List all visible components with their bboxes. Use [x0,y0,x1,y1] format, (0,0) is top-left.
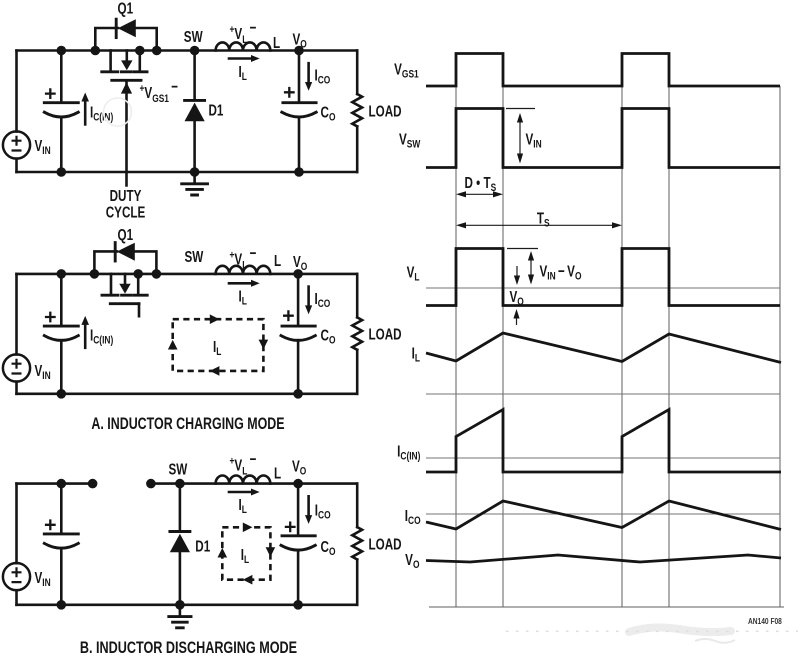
svg-text:AN140 F08: AN140 F08 [748,616,782,626]
current arrow ICO circuit1 [305,63,312,91]
dimension arrow VIN-VO [528,251,534,285]
body diode of Q1 circuitA [115,243,135,261]
marker VL top level [507,248,538,250]
node VO dot circuitA [293,269,303,279]
svg-text:B. INDUCTOR DISCHARGING MODE: B. INDUCTOR DISCHARGING MODE [80,639,297,657]
plus sign CIN circuitB [45,519,56,530]
small arrow down to VL zero [514,266,520,285]
zero line ICO [426,513,780,515]
resistor LOAD circuitB [352,484,362,605]
plus sign CO circuit1 [284,87,295,98]
node dot Q1 left circuit1 [91,46,101,56]
node VO dot circuit1 [294,46,304,56]
watermark ghost circle circuit1 [104,98,132,126]
node SW dot circuitB [175,479,185,489]
loop arrow left circuitA [168,340,178,350]
diode D1 circuit1 [185,51,205,173]
wire top rail circuitA [17,273,358,276]
watermark dotted line [506,630,798,632]
transistor Q1 MOSFET body arrow circuit1 [121,51,132,71]
wire VIN top lead circuit1 [15,51,18,132]
node dot CIN bottom circuit1 [57,167,67,177]
wire VIN top lead circuitB [15,484,18,564]
svg-text:CYCLE: CYCLE [106,202,146,220]
inductor L circuitA [216,266,271,274]
current arrow IL circuit1 [229,55,260,62]
transistor Q1 MOSFET source lead circuit1 [139,51,142,71]
dimension arrow TS [456,222,622,228]
node dot Q1 right circuitA [152,269,162,279]
inductor L circuitB [216,476,271,484]
loop arrow top circuitB [243,523,253,533]
svg-text:Q1: Q1 [118,0,134,17]
plus sign CO circuitA [283,310,294,321]
transistor Q1 MOSFET gate plate circuit1 [112,79,141,82]
capacitor CO circuit1 [282,51,316,173]
wire VIN bottom lead circuitA [15,382,18,394]
transistor Q1 MOSFET body arrow circuitA [119,274,130,294]
transistor Q1 MOSFET channel dashes circuit1 [102,70,147,73]
resistor LOAD circuitA [352,274,362,394]
ground symbol circuitB [169,605,191,628]
gridline vertical t4 [668,54,670,608]
svg-text:Q1: Q1 [118,225,134,243]
node dot CIN top circuit1 [57,46,67,56]
capacitor CO circuitB [281,484,315,605]
ground symbol circuit1 [182,172,208,195]
wire VIN top lead circuitA [15,274,18,355]
node dot CO bottom circuitA [293,389,303,399]
zero line VL [426,287,780,289]
node dot Q1 left circuitA [90,269,100,279]
diode D1 circuitB [170,484,190,605]
node dot CIN bottom circuitB [57,600,67,610]
wire VIN bottom lead circuitB [15,590,18,605]
svg-text:D1: D1 [195,537,210,555]
dimension arrow VIN (VSW amplitude) [517,113,523,164]
voltage source VIN circuit1 [3,131,30,158]
svg-text:SW: SW [184,27,203,45]
dashed current loop circuitB [222,527,270,579]
node dot D1 bottom circuitB [175,600,185,610]
current arrow IC(IN) circuitA [81,316,89,348]
waveform ICO [426,501,781,530]
loop arrow right circuitA [259,340,269,350]
capacitor CIN circuitA [44,274,78,394]
node dot CO bottom circuit1 [294,167,304,177]
transistor Q1 body-diode loop wire circuitA [94,251,156,274]
loop arrow left circuitB [218,548,228,558]
transistor Q1 MOSFET drain lead circuitA [110,274,113,294]
wire top rail left segment circuitB [17,482,93,485]
marker VSW top level [506,108,535,110]
transistor Q1 MOSFET source lead circuitA [137,274,140,294]
body diode of Q1 circuit1 (cathode bar + left-pointing triangle) [116,19,136,37]
node dot CIN bottom circuitA [57,389,67,399]
svg-text:SW: SW [185,247,204,265]
gridline vertical t2 [502,54,504,608]
capacitor CIN circuit1 [44,51,78,173]
plus sign CIN circuit1 [45,88,56,99]
node dot Q1 middle circuit1 [135,46,145,56]
zero line IC(IN) [426,457,780,459]
transistor Q1 body-diode loop wire circuit1 [95,28,156,51]
loop arrow top circuitA [210,314,220,324]
plus sign CIN circuitA [45,312,56,323]
current arrow IL circuitA [229,280,260,287]
node dot CO bottom circuitB [293,600,303,610]
wire gate lead DUTY CYCLE circuit1 [125,82,128,185]
node dot open switch right circuitB [146,479,156,489]
wire bottom rail circuitA [17,392,358,395]
svg-text:LOAD: LOAD [369,535,402,553]
inductor L circuit1 [216,42,271,50]
transistor Q1 MOSFET drain lead circuit1 [109,51,112,71]
waveform VSW [426,109,780,168]
gridline vertical right edge [779,86,781,607]
svg-text:L: L [273,33,281,51]
plus sign CO circuitB [285,522,296,533]
waveform VGS1 [426,54,780,87]
capacitor CO circuitA [281,274,315,394]
wire gate lead stub circuitA [138,304,141,317]
node dot CIN top circuitB [57,479,67,489]
dimension arrow D.TS [456,191,503,197]
wire top rail circuit1 [17,49,358,52]
resistor LOAD circuit1 [352,51,362,173]
loop arrow bottom circuitB [243,575,253,585]
dashed current loop circuitA [173,319,264,371]
current arrow ICO circuitB [305,496,312,524]
waveform IL [426,333,781,363]
svg-text:L: L [274,464,282,482]
svg-text:A. INDUCTOR CHARGING MODE: A. INDUCTOR CHARGING MODE [91,415,284,433]
svg-text:D1: D1 [209,101,224,119]
node dot open switch left circuitB [88,479,98,489]
wire bottom rail circuitB [17,603,358,606]
gridline vertical t1 [455,54,457,608]
waveform IC(IN) [426,410,781,473]
node VO dot circuitB [293,479,303,489]
svg-text:LOAD: LOAD [369,325,402,343]
current arrow IC(IN) circuit1 [81,93,89,125]
watermark smudge bottom [629,628,731,633]
svg-text:L: L [274,251,282,269]
watermark squiggle [695,639,735,643]
waveform VL [426,249,780,306]
loop arrow right circuitB [266,547,276,557]
node dot Q1 right circuit1 [152,46,162,56]
waveform VO [426,555,781,562]
svg-text:LOAD: LOAD [369,101,402,119]
zero line IL [426,393,780,395]
axis bottom [429,606,784,608]
wire VIN bottom lead circuit1 [15,159,18,172]
arrowhead gate drive circuit1 [121,82,132,93]
gridline vertical t3 [621,54,623,608]
transistor Q1 MOSFET channel dashes circuitA [102,294,147,297]
transistor Q1 MOSFET gate plate circuitA [110,302,139,305]
node SW dot circuit1 [190,46,200,56]
small arrow up to VL baseline [513,309,519,325]
current arrow ICO circuitA [305,287,312,315]
current arrow IL circuitB [229,489,260,496]
voltage source VIN circuitA [3,354,30,381]
voltage source VIN circuitB [3,563,30,590]
node dot CIN top circuitA [57,269,67,279]
svg-text:SW: SW [169,460,188,478]
wire bottom rail circuit1 [17,171,358,174]
loop arrow bottom circuitA [210,366,220,376]
capacitor CIN circuitB [44,484,78,605]
node dot Q1 middle circuitA [133,269,143,279]
node dot D1 bottom circuit1 [190,167,200,177]
wire top rail right segment circuitB [151,482,357,485]
